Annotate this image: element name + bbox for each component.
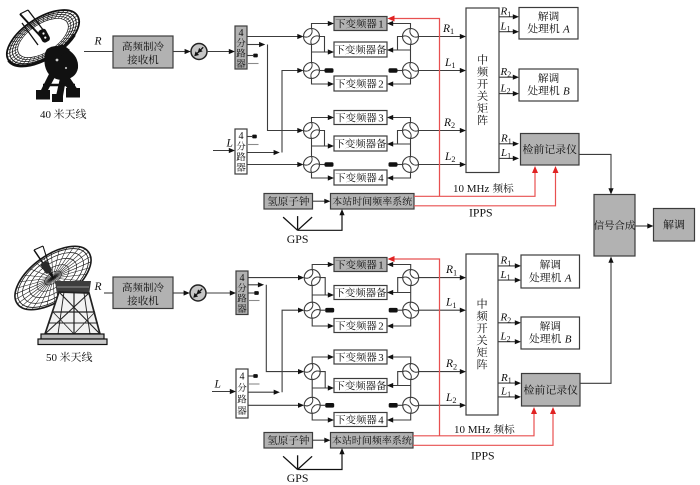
IF line R1 to matrix (419, 36, 461, 38)
box 检前记录仪 (top) (521, 134, 580, 166)
switch g2b-in-2 (304, 397, 320, 413)
wire clock to time-freq system (bottom) (313, 439, 326, 441)
box 检前记录仪 (bottom) (522, 374, 581, 407)
interconnect vertical (right) g2b (410, 380, 412, 398)
wire R-splitter port2 to switch S3 (top) (247, 44, 262, 46)
box 下变频器 3 (334, 350, 387, 364)
svg-text:3: 3 (378, 352, 383, 364)
svg-text:L: L (214, 379, 221, 391)
receiver box 高频制冷接收机 (bottom) (113, 277, 173, 309)
wire E/O to R-splitter (top) (207, 51, 230, 53)
svg-text:4: 4 (238, 131, 243, 142)
svg-text:R: R (94, 36, 102, 48)
L 4-way splitter box 4分路器 (bottom) (236, 369, 248, 418)
svg-text:1: 1 (378, 18, 383, 30)
wire R-splitter port2 to switch S3 (bottom) (248, 284, 261, 286)
wire switch left-port corner g2b (right) (398, 372, 403, 386)
wire switch to DC2 (left bottom) g1b (312, 318, 328, 326)
svg-text:4: 4 (378, 172, 384, 184)
IF line L2 to matrix (419, 404, 461, 406)
wire DC2 to switch (right bottom) g1t (393, 79, 411, 85)
wire switch right-port corner g1b (left) (320, 278, 325, 295)
svg-text:R1: R1 (500, 255, 512, 268)
matrix output L1 (top) (499, 157, 514, 159)
wire GPS to system (bottom) (298, 454, 342, 470)
wire to 下变频器备 (left) g2t (312, 145, 329, 147)
red 10MHz line to recorder (bottom) (413, 412, 534, 436)
svg-text:IPPS: IPPS (471, 449, 495, 463)
switch g1b-in-2 (304, 302, 320, 318)
box 本站时间频率系统 (top) (331, 194, 415, 210)
svg-text:R2: R2 (500, 66, 512, 79)
svg-text:A: A (562, 24, 570, 36)
wire switch left-port corner g2t (right) (398, 131, 403, 145)
wire DC4 to switch (right bottom) g2t (393, 173, 411, 179)
wire to 下变频器备 (left) g1t (312, 51, 329, 53)
terminator switch g2t-in-2 right port (320, 164, 325, 166)
switch g2b-out-2 (403, 397, 419, 413)
IF line L2 to matrix (419, 164, 461, 166)
interconnect vertical (right) g1t (410, 45, 412, 63)
switch g1t-out-1 (403, 29, 419, 45)
antenna feed wire (top) (84, 51, 113, 53)
terminator switch g1b-out-2 left port (398, 309, 403, 311)
svg-text:4: 4 (378, 414, 384, 426)
wire recorder to combiner (top) (579, 154, 611, 189)
wire switch right-port corner g2t (left) (320, 131, 325, 147)
svg-text:50: 50 (46, 352, 58, 364)
interconnect vertical (left) g2t (311, 139, 313, 157)
matrix output L2 (bottom) (498, 341, 516, 343)
switch g2b-out-1 (403, 364, 419, 380)
box 下变频器 2 (334, 76, 387, 91)
50m antenna drawing (4, 234, 102, 322)
wire switch to DC3 (left top) g2b (312, 357, 328, 364)
L-splitter port2 stub (top) (247, 144, 259, 146)
svg-text:L1: L1 (500, 386, 511, 399)
L input wire (top) (213, 150, 230, 152)
wire DC3 to switch (right top) g2b (393, 357, 411, 364)
IF line R2 to matrix (419, 130, 461, 132)
box 下变频器备 g1t (334, 42, 387, 57)
svg-text:1: 1 (378, 259, 383, 271)
svg-text:GPS: GPS (287, 471, 309, 485)
box 解调处理机 A (top) (519, 8, 578, 40)
svg-text:3: 3 (378, 112, 383, 124)
svg-text:L1: L1 (500, 147, 511, 160)
switch g1b-out-2 (403, 302, 419, 318)
svg-text:2: 2 (378, 78, 383, 90)
antenna feed wire (bottom) (104, 292, 113, 294)
svg-text:R2: R2 (443, 117, 455, 130)
interconnect vertical (right) g2t (410, 139, 412, 157)
wire switch right-port corner g2b (left) (320, 372, 325, 388)
box 解调处理机 B (top) (519, 69, 578, 101)
L-splitter port2 stub (bottom) (248, 383, 260, 385)
svg-text:L2: L2 (444, 151, 456, 164)
R-splitter port4 stub (top) (247, 63, 259, 65)
wire DC2 to switch (right bottom) g1b (393, 318, 411, 326)
svg-text:4: 4 (238, 28, 243, 39)
switch g1b-in-1 (304, 270, 320, 286)
svg-text:B: B (563, 86, 570, 98)
box 下变频器 1 (334, 258, 387, 272)
wire DC3 to switch (right top) g2t (393, 118, 411, 123)
svg-text:4: 4 (239, 372, 244, 383)
wire 下变频器备 to switch (right) g2t (393, 143, 411, 145)
E/O optical transmitter (top) (191, 44, 207, 60)
matrix output R2 (bottom) (498, 322, 516, 324)
interconnect vertical (left) g2b (311, 380, 313, 398)
box 下变频器备 g2t (334, 136, 387, 151)
wire L-splitter port4 to switch S4 (top) (247, 164, 298, 166)
IF switch matrix 中频开关矩阵 (bottom) (466, 254, 498, 415)
box 下变频器 3 (334, 111, 387, 125)
wire receiver to E/O (bottom) (173, 292, 185, 294)
terminator switch g2t-out-2 left port (398, 164, 403, 166)
matrix output R1 (bottom) (498, 265, 516, 267)
wire recorder to combiner (bottom) (580, 261, 611, 383)
wire DC1 to switch (right top) g1b (393, 265, 411, 270)
wire DC4 to switch (right bottom) g2b (393, 413, 411, 420)
wire to 下变频器备 (left) g2b (312, 387, 328, 389)
IF line R1 to matrix (419, 277, 461, 279)
R-splitter port3 terminated (top) (247, 55, 253, 57)
matrix output L1 (bottom) (498, 396, 516, 398)
svg-text:A: A (564, 273, 572, 285)
svg-text:R1: R1 (445, 264, 457, 277)
switch g2b-in-1 (304, 364, 320, 380)
L-splitter port1 terminated (top) (247, 136, 252, 138)
matrix output R1 (bottom) (498, 382, 516, 384)
GPS antenna symbol (bottom) (283, 456, 298, 469)
svg-text:2: 2 (378, 320, 383, 332)
E/O optical transmitter (bottom) (190, 285, 206, 301)
terminator switch g2b-out-2 left port (398, 404, 403, 406)
receiver box 高频制冷接收机 (top) (113, 36, 173, 68)
box 解调处理机 B (bottom) (521, 317, 580, 349)
R-splitter port3 terminated (bottom) (248, 292, 254, 294)
svg-text:L2: L2 (500, 82, 511, 95)
svg-text:L1: L1 (445, 297, 457, 310)
wire switch left-port corner g1t (right) (398, 37, 403, 51)
IF line R2 to matrix (419, 371, 461, 373)
interconnect vertical (left) g1b (311, 286, 313, 303)
switch g1t-in-2 (304, 63, 320, 79)
box 下变频器 4 (334, 413, 387, 427)
IF line L1 to matrix (419, 70, 461, 72)
terminator switch g1t-out-2 left port (398, 70, 403, 72)
svg-text:L1: L1 (500, 269, 511, 282)
svg-text:R2: R2 (500, 312, 512, 325)
wire switch right-port corner g1t (left) (320, 37, 325, 53)
R 4-way splitter box 4分路器 (bottom) (236, 271, 248, 315)
svg-text:10 MHz: 10 MHz (453, 183, 489, 195)
box 氢原子钟 (bottom) (264, 433, 313, 449)
matrix output L1 (bottom) (498, 279, 516, 281)
wire switch to DC2 (left bottom) g1t (312, 79, 329, 85)
L input wire (bottom) (212, 391, 231, 393)
wire 下变频器备 to switch (right) g1t (393, 49, 411, 51)
wire L-splitter port3 to switch S2 (top) (247, 152, 277, 154)
box 下变频器 1 (334, 17, 387, 31)
L-splitter port1 terminated (bottom) (248, 375, 253, 377)
box 下变频器 2 (334, 319, 387, 333)
svg-text:4: 4 (239, 273, 244, 284)
red 10MHz line to DC1 (bottom) (394, 259, 440, 436)
svg-text:R1: R1 (442, 23, 454, 36)
box 本站时间频率系统 (bottom) (331, 433, 414, 449)
svg-text:R1: R1 (500, 133, 512, 146)
svg-text:R1: R1 (500, 372, 512, 385)
svg-text:GPS: GPS (287, 232, 309, 246)
red IPPS line to recorder (bottom) (413, 412, 553, 445)
switch g2t-in-1 (304, 123, 320, 139)
wire 下变频器备 to switch (right) g1b (393, 292, 411, 294)
IF switch matrix 中频开关矩阵 (top) (466, 8, 499, 173)
red 10MHz line to DC1 (top) (394, 19, 440, 197)
matrix output R2 (top) (499, 76, 514, 78)
wire R-splitter port1 to switch S1 (top) (247, 36, 298, 38)
wire L-splitter port3 to switch S2 (bottom) (248, 391, 277, 393)
svg-text:R2: R2 (445, 358, 457, 371)
40m antenna drawing (0, 0, 88, 77)
wire switch to DC4 (left bottom) g2b (312, 413, 328, 420)
box 下变频器 4 (334, 170, 387, 185)
box 解调 (654, 209, 695, 242)
svg-text:L: L (226, 138, 233, 150)
wire GPS to system (top) (298, 215, 342, 231)
box 下变频器备 g1b (334, 286, 387, 300)
switch g2t-in-2 (304, 157, 320, 173)
terminator switch g1t-in-2 right port (320, 70, 325, 72)
wire switch left-port corner g1b (right) (398, 278, 403, 293)
R-splitter port4 stub (bottom) (248, 300, 260, 302)
wire switch to DC1 (left top) g1t (312, 24, 329, 29)
box 下变频器备 g2b (334, 379, 387, 393)
terminator switch g1b-in-2 right port (320, 309, 325, 311)
wire DC1 to switch (right top) g1t (393, 24, 411, 29)
matrix output L1 (top) (499, 31, 514, 33)
svg-text:L2: L2 (445, 392, 457, 405)
R 4-way splitter box 4分路器 (top) (235, 26, 247, 69)
svg-text:R1: R1 (500, 6, 512, 19)
interconnect vertical (right) g1b (410, 286, 412, 303)
wire combiner to demod (635, 225, 648, 227)
matrix output R1 (top) (499, 143, 514, 145)
svg-text:10 MHz: 10 MHz (454, 424, 490, 436)
box 解调处理机 A (bottom) (521, 255, 580, 288)
interconnect vertical (left) g1t (311, 45, 313, 63)
IF line L1 to matrix (419, 309, 461, 311)
red IPPS line to recorder (top) (414, 171, 556, 206)
wire clock to time-freq system (top) (313, 200, 326, 202)
svg-text:IPPS: IPPS (469, 206, 493, 220)
svg-text:L1: L1 (444, 57, 456, 70)
switch g2t-out-1 (403, 123, 419, 139)
wire switch to DC3 (left top) g2t (312, 118, 329, 123)
svg-text:B: B (565, 334, 572, 346)
red 10MHz line to recorder (top) (414, 171, 535, 196)
matrix output L2 (top) (499, 93, 514, 95)
wire L-splitter port4 to switch S4 (bottom) (248, 404, 299, 406)
wire R-splitter port1 to switch S1 (bottom) (248, 277, 299, 279)
matrix output R1 (top) (499, 16, 514, 18)
wire 下变频器备 to switch (right) g2b (393, 385, 411, 387)
wire to 下变频器备 (left) g1b (312, 294, 328, 296)
terminator switch g2b-in-2 right port (320, 404, 325, 406)
wire receiver to E/O (top) (173, 51, 186, 53)
switch g1t-out-2 (403, 63, 419, 79)
svg-text:40: 40 (40, 109, 52, 121)
svg-text:R: R (94, 281, 102, 293)
wire switch to DC4 (left bottom) g2t (312, 173, 329, 179)
box 信号合成 (594, 195, 635, 257)
svg-text:L1: L1 (500, 21, 511, 34)
switch g2t-out-2 (403, 157, 419, 173)
svg-text:L2: L2 (500, 331, 511, 344)
box 氢原子钟 (top) (264, 194, 313, 210)
L 4-way splitter box 4分路器 (top) (235, 129, 247, 174)
wire E/O to R-splitter (bottom) (206, 292, 231, 294)
switch g1t-in-1 (304, 29, 320, 45)
wire switch to DC1 (left top) g1b (312, 265, 328, 270)
switch g1b-out-1 (403, 270, 419, 286)
GPS antenna symbol (top) (283, 217, 298, 230)
